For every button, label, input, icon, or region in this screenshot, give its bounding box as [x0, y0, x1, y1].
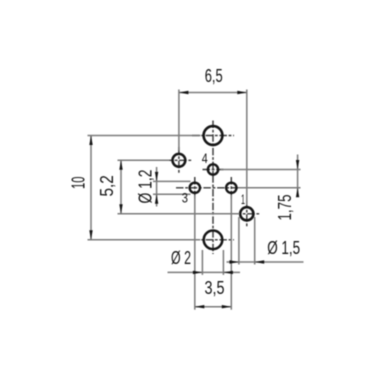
pin 1 hole (dia 1.5): [240, 207, 253, 220]
svg-text:10: 10: [68, 177, 89, 190]
main vertical centerline: [212, 121, 214, 255]
dim dia 1,2 arrow top: [155, 172, 158, 182]
hole A (top, dia 2): [204, 126, 223, 145]
dim 3,5 arrow right: [222, 305, 232, 308]
dim 6,5 extension line left: [178, 90, 180, 151]
dim 5,2 dimension line: [120, 160, 122, 214]
svg-text:5,2: 5,2: [96, 175, 117, 196]
dim 10 extension line bottom: [88, 239, 201, 241]
dim 1,75 arrow bottom: [296, 188, 299, 198]
dim 10 dimension line: [90, 136, 92, 240]
dia 2 leader line: [168, 271, 241, 273]
dim 10 extension line top: [88, 135, 201, 137]
dim 1,75 extension line top: [221, 169, 301, 171]
dim 3,5 dimension line: [195, 306, 232, 308]
pin 5 hole (dia 1.5): [173, 154, 186, 167]
pin 1 hole centerlines: [234, 213, 261, 215]
pin 5 hole centerlines: [166, 159, 193, 161]
svg-text:Ø 1,5: Ø 1,5: [267, 237, 300, 258]
svg-text:6,5: 6,5: [205, 65, 223, 86]
dim 1,75 extension line bottom: [238, 187, 301, 189]
dim 3,5 arrow left: [195, 305, 205, 308]
svg-text:3,5: 3,5: [205, 277, 225, 298]
hole A (top, dia 2) centerline horizontal: [192, 135, 234, 137]
hole B (bottom, dia 2) centerline horizontal: [192, 239, 234, 241]
dim 5,2 extension line bottom: [118, 213, 240, 215]
dim 10 arrow bottom: [89, 230, 92, 240]
svg-text:Ø 1,2: Ø 1,2: [135, 170, 156, 204]
dim dia 1,2 extension line bottom: [153, 193, 191, 195]
svg-text:4: 4: [202, 150, 208, 166]
dim 6,5 extension line right: [246, 90, 248, 206]
dia 2 arrow right (outside, pointing left): [223, 271, 233, 274]
hole B (bottom, dia 2): [204, 231, 223, 250]
dia 1,5 arrow left (outside, pointing right): [229, 260, 239, 263]
svg-text:3: 3: [182, 190, 188, 206]
svg-text:Ø 2: Ø 2: [171, 247, 191, 268]
pin 2 vertical centerline: [230, 177, 232, 199]
dim 5,2 extension line top: [118, 159, 170, 161]
dim 6,5 arrow left: [179, 91, 189, 94]
dia 2 leader tangent extension left: [201, 250, 203, 275]
dia 1,5 leader tangent extension right: [254, 217, 256, 265]
dim 6,5 arrow right: [237, 91, 247, 94]
pin 4 hole (dia 1.2): [208, 164, 218, 174]
dim dia 1,2 extension line top: [153, 180, 191, 182]
row centerline through pins 3 and 2: [176, 187, 241, 189]
dia 2 arrow left (outside, pointing right): [193, 271, 203, 274]
dim dia 1,2 arrow bottom: [155, 194, 158, 204]
dim 5,2 arrow top: [119, 160, 122, 170]
dia 1,5 leader line: [227, 261, 304, 263]
dim 3,5 extension line left: [194, 195, 196, 310]
pin 4 hole centerline horizontal: [203, 169, 224, 171]
svg-text:1,75: 1,75: [274, 195, 295, 221]
dia 1,5 leader tangent extension left: [238, 217, 240, 265]
dim 5,2 arrow bottom: [119, 204, 122, 214]
dim 6,5 dimension line: [179, 92, 247, 94]
svg-text:1: 1: [241, 191, 245, 207]
dim 10 arrow top: [89, 136, 92, 146]
pin 2 hole (dia 1.2): [226, 183, 236, 193]
dim dia 1,2 dimension line: [156, 167, 158, 207]
dim 3,5 extension line right: [230, 195, 232, 310]
dia 2 leader tangent extension right: [222, 250, 224, 275]
pin 3 vertical centerline: [194, 177, 196, 199]
dim 1,75 arrow top: [296, 160, 299, 170]
dia 1,5 arrow right (outside, pointing left): [255, 260, 265, 263]
dim 1,75 dimension line: [297, 155, 299, 197]
pin 3 hole (dia 1.2): [190, 183, 200, 193]
